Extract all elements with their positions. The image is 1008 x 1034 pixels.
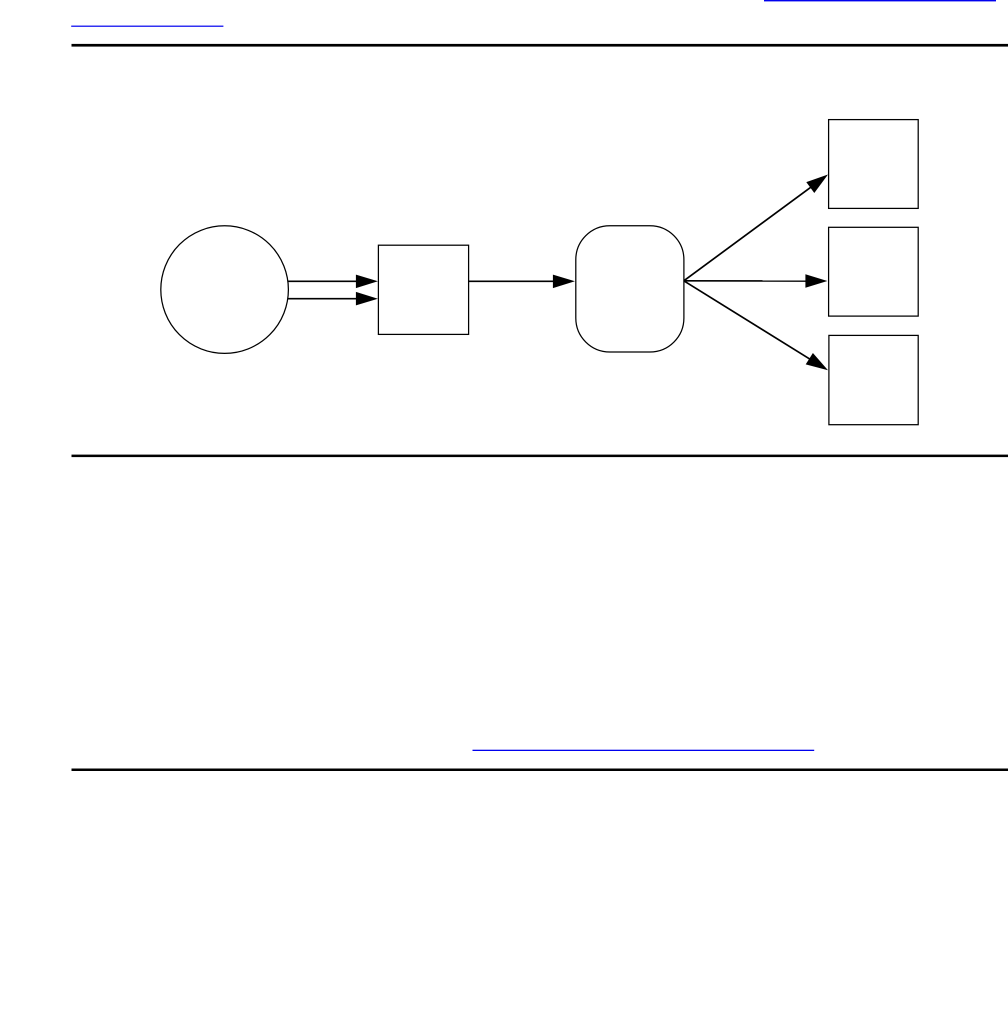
arrow: rounded store to output box 1 (up) [684, 175, 828, 281]
horizontal rule (header) [72, 44, 1008, 47]
arrow: rounded store to output box 3 (down) [684, 281, 828, 371]
link underline (top right header link) [764, 0, 996, 1]
circle node (source) [161, 226, 289, 354]
square node (output box 1, top) [829, 120, 919, 209]
arrow: circle to process box (lower) [288, 292, 378, 306]
rounded rectangle node (store) [576, 226, 684, 352]
link underline (footer reference link) [473, 750, 815, 751]
arrow: process box to rounded store [469, 275, 575, 289]
horizontal rule (below figure) [72, 455, 1008, 458]
arrow: rounded store to output box 2 (middle) [684, 274, 828, 288]
square node (output box 2, middle) [829, 227, 919, 316]
square node (output box 3, bottom) [829, 335, 918, 424]
arrow: circle to process box (upper) [288, 275, 378, 289]
horizontal rule (footer) [72, 769, 1008, 772]
square node (process box) [378, 245, 468, 334]
link underline (top left header link) [71, 26, 223, 27]
